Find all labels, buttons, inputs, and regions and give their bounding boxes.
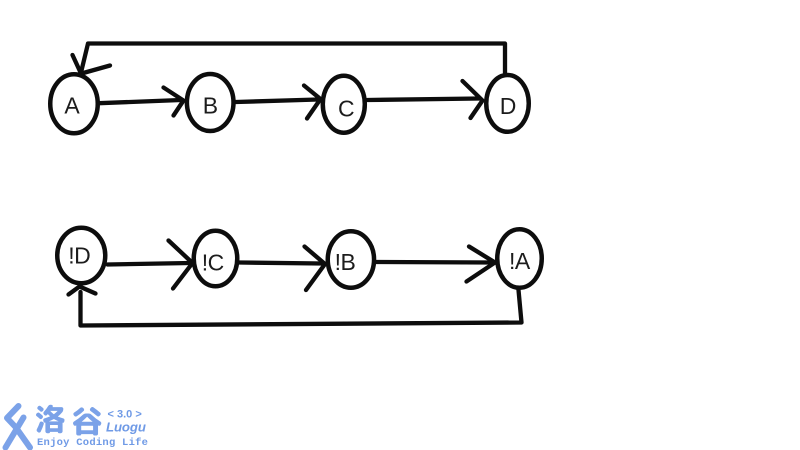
logo mark na stroke bbox=[16, 427, 31, 448]
wire edge !B to !A arrowhead bbox=[467, 247, 496, 282]
wire edge C to D shaft bbox=[368, 99, 480, 101]
logo mark top diagonal bbox=[7, 406, 19, 427]
wire edge !D to !C arrowhead bbox=[169, 241, 193, 289]
svg-text:Enjoy Coding Life: Enjoy Coding Life bbox=[37, 437, 148, 449]
wire edge !B to !A shaft bbox=[377, 260, 493, 265]
node B ellipse bbox=[187, 74, 234, 131]
wire edge A to B shaft bbox=[99, 100, 181, 103]
wire edge B to C shaft bbox=[236, 100, 318, 103]
node C ellipse bbox=[323, 76, 365, 133]
svg-text:C: C bbox=[338, 95, 355, 121]
wire edge A to B arrowhead bbox=[164, 88, 184, 116]
svg-text:!A: !A bbox=[509, 248, 531, 274]
logo character gu bbox=[73, 407, 101, 436]
wire edge !C to !B shaft bbox=[240, 263, 323, 264]
svg-text:Luogu: Luogu bbox=[106, 420, 146, 435]
wire edge !A to !D loop bbox=[81, 290, 522, 326]
svg-text:D: D bbox=[500, 93, 517, 119]
wire edge !C to !B arrowhead bbox=[305, 247, 326, 291]
logo mark jiu stroke group bbox=[6, 406, 31, 448]
svg-text:!B: !B bbox=[335, 249, 356, 275]
logo mark long pie stroke bbox=[6, 418, 24, 448]
wire edge C to D arrowhead bbox=[463, 81, 483, 118]
wire edge D to A arrowhead bbox=[73, 55, 111, 74]
wire edge !D to !C shaft bbox=[108, 263, 191, 265]
node !B ellipse bbox=[328, 231, 374, 288]
node A ellipse bbox=[50, 74, 98, 133]
svg-text:B: B bbox=[203, 92, 218, 118]
svg-text:!D: !D bbox=[68, 242, 90, 268]
svg-text:!C: !C bbox=[202, 250, 224, 276]
wire edge B to C arrowhead bbox=[304, 86, 321, 119]
node !D ellipse bbox=[57, 228, 105, 284]
node !C ellipse bbox=[194, 231, 238, 287]
node D ellipse bbox=[486, 75, 529, 132]
node !A ellipse bbox=[497, 229, 542, 288]
wire edge !A to !D arrowhead bbox=[69, 287, 96, 295]
wire edge D to A loop bbox=[81, 44, 505, 74]
svg-text:A: A bbox=[64, 93, 80, 119]
logo character luo bbox=[36, 405, 65, 433]
